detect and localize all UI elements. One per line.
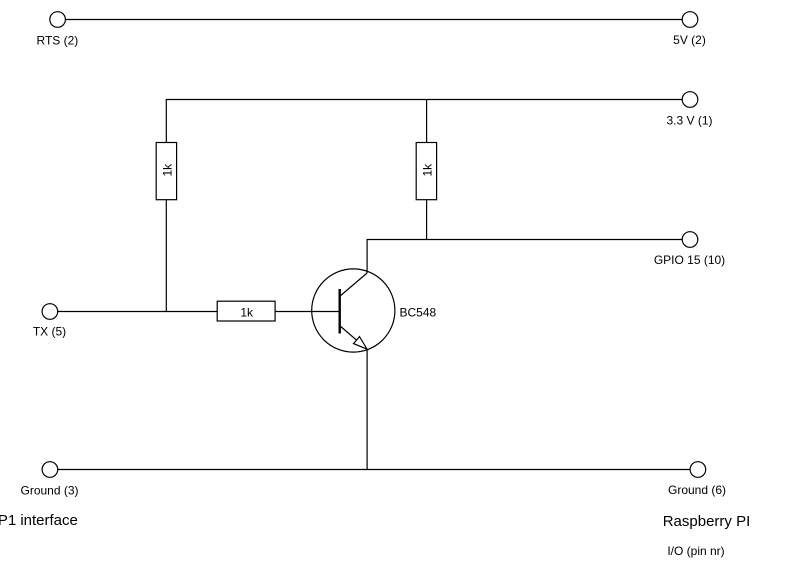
transistor Q1 BC548 [312,269,395,352]
svg-text:Ground (3): Ground (3) [20,484,78,498]
node Ground (3) terminal [42,462,58,478]
svg-text:BC548: BC548 [400,306,437,320]
node GPIO 15 (10) terminal [682,232,698,248]
node 5V (2) terminal [682,12,698,28]
wire 3.3V rail [166,100,682,143]
svg-text:1k: 1k [240,306,254,320]
transistor body circle [312,269,395,352]
node RTS (2) terminal [50,12,66,28]
resistor R2 1k (right vertical) [416,143,436,200]
wire emitter to ground [366,349,368,469]
resistor R1 1k (left vertical) [156,143,176,200]
svg-text:Raspberry PI: Raspberry PI [663,513,751,530]
node Ground (6) terminal [690,462,706,478]
svg-text:GPIO 15 (10): GPIO 15 (10) [654,253,725,267]
base bar [339,289,341,334]
svg-text:RTS (2): RTS (2) [37,34,79,48]
svg-text:TX (5): TX (5) [33,325,66,339]
wire RTS to 5V (top rail) [66,19,682,21]
emitter arrow [354,337,368,350]
node TX (5) terminal [42,304,58,320]
wire ground rail [58,469,690,471]
node 3.3V (1) terminal [682,92,698,108]
svg-text:Ground (6): Ground (6) [668,483,726,497]
svg-text:I/O (pin nr): I/O (pin nr) [667,544,724,558]
wire GPIO 15 line with corner to collector [367,240,682,274]
svg-text:1k: 1k [161,163,175,177]
svg-text:P1 interface: P1 interface [0,512,78,529]
wire R2 top branch from 3.3V rail [426,100,428,143]
svg-text:5V (2): 5V (2) [673,33,706,47]
collector lead [341,273,367,296]
emitter lead [341,327,367,350]
wire R2 bottom to collector node [426,200,428,240]
svg-text:3.3 V (1): 3.3 V (1) [666,114,712,128]
svg-text:1k: 1k [421,163,435,177]
resistor R3 1k (horizontal, base) [217,301,275,321]
wire TX to R3 [58,311,217,313]
wire R1 bottom to TX node [165,200,167,312]
wire R3 to base [275,311,339,313]
